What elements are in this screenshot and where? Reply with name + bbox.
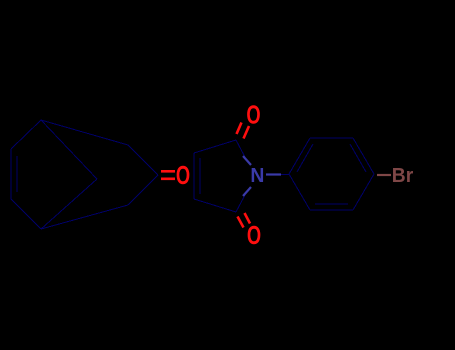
- maleimide bond C3-C4: [194, 199, 236, 212]
- maleimide double bond C2=C4 outer line: [193, 153, 195, 199]
- bond para-Br (maroon): [377, 174, 391, 176]
- svg-text:O: O: [246, 100, 260, 129]
- top carbonyl double bond C1=O1 line b: [244, 126, 250, 139]
- maleimide bond N-C3 (navy half): [236, 193, 246, 212]
- svg-text:Br: Br: [392, 164, 414, 187]
- bicyclic cage: bridge bond A-M: [41, 120, 97, 179]
- maleimide bond N-C1 (navy half): [236, 140, 246, 159]
- benzene ring double bond inner line v3-para: [350, 144, 366, 172]
- bicyclic cage: double bond B=C outer line: [10, 149, 12, 199]
- bicyclic cage: bond K-K1 (ketone C to upper CH2): [128, 145, 158, 175]
- svg-text:O: O: [176, 161, 190, 190]
- bicyclic cage: bridge bond D-M: [41, 179, 97, 229]
- bicyclic cage: bond K-K2 (ketone C to lower CH2): [128, 175, 158, 205]
- ketone double bond C=O lower line: [161, 178, 175, 181]
- maleimide bond N-C3 (blue half near N): [243, 187, 251, 196]
- maleimide bond C1-C2: [194, 140, 236, 153]
- bond N-ipso (blue half near N): [266, 173, 281, 175]
- benzene ring double bond inner line v5-v6: [315, 203, 348, 205]
- benzene ring edge ipso-v2: [289, 138, 310, 174]
- benzene ring edge v3-para: [353, 138, 374, 174]
- svg-text:N: N: [250, 164, 264, 187]
- benzene ring edge v5-v6: [310, 209, 353, 211]
- benzene ring double bond inner line ipso-v2: [297, 144, 313, 172]
- bicyclic cage: double bond B=C inner line: [16, 156, 18, 192]
- bicyclic cage: bond D-C (bridgehead to alkene C): [11, 199, 41, 229]
- bicyclic cage: bond K2-D (lower CH2 to bottom bridgehead): [41, 205, 128, 229]
- maleimide double bond C2=C4 inner line: [199, 158, 201, 194]
- bicyclic cage: bond A-B (bridgehead to alkene C): [11, 120, 41, 149]
- top carbonyl double bond C1=O1 line a: [237, 123, 242, 135]
- bond N-ipso (navy half): [281, 174, 289, 176]
- benzene ring edge para-v5: [353, 174, 374, 210]
- benzene ring edge v2-v3: [310, 137, 353, 139]
- bottom carbonyl double bond C3=O3 line b: [245, 213, 251, 224]
- bottom carbonyl double bond C3=O3 line a: [238, 217, 244, 228]
- bicyclic cage: bond K1-A (upper CH2 to top bridgehead): [41, 120, 128, 145]
- svg-text:O: O: [247, 221, 261, 250]
- benzene ring edge v6-ipso: [289, 174, 310, 210]
- maleimide bond N-C1 (blue half near N): [243, 156, 251, 165]
- ketone double bond C=O upper line: [161, 170, 175, 173]
